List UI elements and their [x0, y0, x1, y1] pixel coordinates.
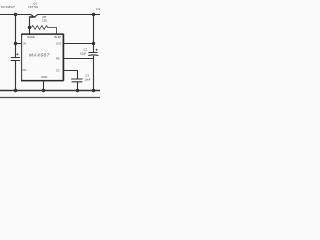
capacitor C2: [88, 53, 98, 56]
svg-text:BLIM: BLIM: [54, 35, 61, 39]
svg-text:GND: GND: [41, 75, 47, 79]
wire OUT: [63, 43, 93, 45]
svg-text:OUT: OUT: [56, 41, 62, 45]
wire Q1 base: [29, 18, 31, 34]
caption rule: [0, 97, 100, 99]
wire output vertical: [93, 15, 95, 53]
node ground junctions: [14, 89, 17, 92]
svg-text:MAX687: MAX687: [29, 53, 50, 59]
svg-text:10nF: 10nF: [84, 78, 90, 82]
wire C3 to ground: [77, 82, 79, 91]
svg-text:FB: FB: [56, 56, 60, 60]
node IN pin junction: [14, 42, 17, 45]
wire C1 to ground: [15, 61, 17, 91]
svg-text:130: 130: [42, 18, 47, 22]
svg-text:CC: CC: [56, 69, 60, 73]
capacitor C3: [71, 79, 82, 82]
svg-text:BASE: BASE: [27, 35, 35, 39]
svg-text:C3: C3: [85, 73, 89, 77]
wire ground rail: [0, 90, 100, 92]
svg-text:IN: IN: [23, 41, 26, 45]
node output top junction: [92, 13, 95, 16]
wire IN pin: [16, 43, 22, 45]
wire GND pin: [43, 81, 45, 91]
svg-text:C2: C2: [84, 48, 88, 52]
node OUT junction: [92, 42, 95, 45]
svg-text:FZT749: FZT749: [28, 5, 38, 9]
wire C2 to ground: [93, 56, 95, 91]
svg-text:10µF: 10µF: [80, 51, 87, 55]
wire output rail: [38, 14, 100, 16]
svg-text:5V INPUT: 5V INPUT: [1, 5, 15, 9]
capacitor C1: [11, 58, 20, 61]
svg-text:ON: ON: [22, 68, 26, 72]
transistor Q1: [31, 15, 33, 17]
resistor R1: [31, 26, 56, 34]
IC U1 box: [22, 34, 64, 81]
wire CC: [63, 71, 77, 79]
node base junction: [28, 26, 31, 29]
svg-text:3.3V: 3.3V: [96, 7, 100, 11]
wire input rail: [0, 14, 31, 16]
wire input vertical: [15, 15, 17, 58]
wire FB: [63, 58, 93, 60]
node input junction: [14, 13, 17, 16]
